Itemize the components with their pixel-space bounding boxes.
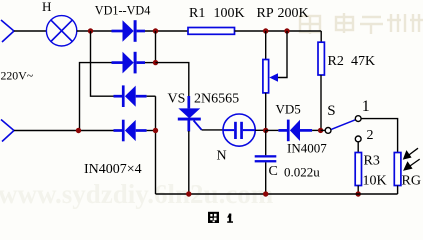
wire VD3 right to bus [147,95,156,97]
diode VD1 [112,20,146,42]
resistor R2 [318,42,324,75]
wire lamp to VD1 [77,30,112,32]
wire B down to VD2 node [155,31,157,63]
wire VD4 right to bus [147,130,156,132]
wire R2 bottom lead [320,75,322,131]
node VD2 right junction [153,60,158,65]
svg-text:2: 2 [367,128,374,143]
switch contact 1 [355,116,361,122]
svg-text:S: S [327,103,335,119]
node VS rail junction [186,191,191,196]
svg-text:C: C [269,164,278,179]
node C rail junction [263,191,268,196]
node C junction [76,128,81,133]
wire N to node [255,129,266,131]
diode VD3 [114,85,147,107]
svg-text:R2: R2 [328,54,344,69]
node R3 rail junction [356,191,361,196]
wire R3 bottom to rail [357,186,359,195]
wire contact2 to R3 [357,141,359,152]
thyristor VS [178,96,202,132]
resistor R1 [188,28,235,35]
photoresistor RG [394,153,401,186]
wire RP wiper [278,31,288,78]
svg-text:47K: 47K [351,54,375,69]
svg-text:H: H [42,0,51,14]
neon lamp N [223,114,255,146]
svg-text:RP: RP [257,6,274,21]
node VD4 right junction [153,128,158,133]
svg-text:1: 1 [362,98,370,115]
wire right bus down to rail [155,96,157,194]
wire bottom rail [156,193,398,195]
svg-text:IN4007×4: IN4007×4 [84,162,142,177]
svg-text:0.022u: 0.022u [284,165,320,180]
node VD5/R2/S junction [318,128,323,133]
svg-text:100K: 100K [214,6,245,21]
input terminal 2 [1,120,14,142]
svg-text:VD1--VD4: VD1--VD4 [95,4,151,18]
potentiometer RP body [263,60,269,93]
wire node to C top [265,131,267,156]
wire top line corner to R2 [320,31,322,42]
switch S pivot [325,127,331,133]
wire VD2 node to VS anode [156,63,189,97]
switch S arm [331,120,355,130]
node B junction [153,28,158,33]
node RP top junction [263,28,268,33]
svg-text:200K: 200K [278,6,309,21]
svg-text:VD5: VD5 [276,102,301,117]
diode VD4 [114,120,147,142]
svg-text:220V~: 220V~ [1,69,34,83]
svg-text:VS: VS [168,92,186,107]
watermark CJK top right [300,13,423,34]
wire input1 to lamp [14,30,47,32]
svg-text:IN4007: IN4007 [287,141,327,156]
wire VS cathode to rail [188,131,190,194]
wire RP top lead [265,31,267,60]
input terminal 1 [1,20,14,42]
resistor R3 [355,153,361,186]
svg-text:R1: R1 [189,6,205,21]
RP wiper arrow [269,73,278,82]
svg-text:RG: RG [402,174,421,189]
node N/C/VD5 junction [263,128,268,133]
wire A down to VD3 row [91,31,114,96]
wire VD2 right to bus [145,62,156,64]
svg-text:10K: 10K [363,174,387,189]
wire R1 to R2 corner [235,30,322,32]
switch contact 2 [355,136,361,142]
node RP wiper junction [284,28,289,33]
svg-text:R3: R3 [364,154,380,169]
lamp H [46,16,76,46]
wire RG bottom to rail [397,186,399,195]
wire VD2 row left bracket [80,63,112,131]
wire VD1 to R1 [145,30,188,32]
wire node to switch pivot [321,129,325,131]
wire VS gate to N [202,129,224,131]
wire input2 to VD4 [14,130,114,132]
RG arrow 1 [404,148,418,159]
diode VD2 [112,52,146,74]
wire RP bottom lead [265,93,267,131]
caption 图 1 [208,212,219,223]
svg-text:N: N [217,149,227,164]
capacitor C [255,155,277,162]
diode VD5 [266,120,321,142]
node A junction [88,28,93,33]
wire C bottom to rail [265,162,267,194]
RG arrow 2 [404,159,420,170]
wire contact1 to RG [361,119,398,153]
svg-text:2N6565: 2N6565 [194,92,239,107]
